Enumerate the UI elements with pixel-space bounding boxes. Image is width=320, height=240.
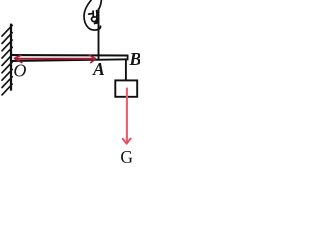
svg-text:O: O xyxy=(13,60,26,80)
hand wrist right edge xyxy=(99,0,102,9)
gravity arrow shaft xyxy=(126,88,128,143)
knuckle stroke lower xyxy=(96,18,99,23)
wall hatching xyxy=(2,25,12,95)
beam right end cap xyxy=(127,55,129,61)
svg-text:A: A xyxy=(92,59,105,79)
knuckle stroke upper xyxy=(96,11,98,18)
weight box xyxy=(115,80,137,96)
red arrowhead at A (pointing right) xyxy=(89,55,95,62)
finger dash xyxy=(89,13,93,16)
curled finger hook xyxy=(92,17,97,24)
red gravity arrow G xyxy=(123,88,131,144)
red force arrow shaft along beam O to A xyxy=(17,58,94,60)
wall vertical line xyxy=(10,24,12,91)
gravity arrowhead xyxy=(123,139,131,144)
hand sketch holding rope xyxy=(84,0,101,30)
svg-text:G: G xyxy=(120,147,133,163)
svg-text:B: B xyxy=(128,49,140,69)
beam top line xyxy=(12,54,129,57)
beam bottom line xyxy=(12,59,129,61)
rope from beam end B down to weight box xyxy=(125,60,127,80)
red arrowhead at O (pointing left) xyxy=(14,55,21,62)
hand outline (palm curve) xyxy=(84,0,101,30)
rope from hand to beam at A xyxy=(98,9,100,61)
finger stroke xyxy=(92,11,94,17)
